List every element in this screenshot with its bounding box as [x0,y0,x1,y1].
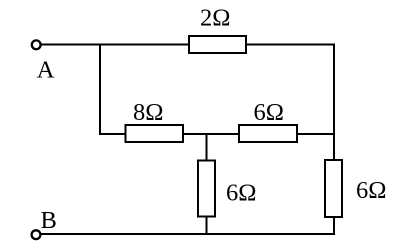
svg-text:6Ω: 6Ω [226,179,256,206]
terminal B circle [32,230,41,239]
wire vertical left branch x=100 [99,44,101,136]
resistor R3 6ohm middle box [239,125,297,142]
svg-text:2Ω: 2Ω [200,5,230,32]
resistor R2 8ohm box [126,125,184,142]
wire middle horizontal y=134 [99,133,335,135]
svg-text:8Ω: 8Ω [133,99,163,126]
svg-text:A: A [37,57,55,84]
wire middle vertical x=206.5 [206,134,208,234]
wire bottom from B to right [41,233,335,235]
resistor R4 6ohm middle vertical box [198,161,215,217]
wire right vertical x=334 [333,44,335,236]
svg-text:6Ω: 6Ω [356,177,386,204]
resistor R1 2ohm box [189,36,246,53]
svg-text:6Ω: 6Ω [254,99,284,126]
svg-text:B: B [41,207,57,234]
resistor R5 6ohm right vertical box [325,160,342,217]
wire top from A to right corner [41,44,334,46]
terminal A circle [32,40,41,49]
